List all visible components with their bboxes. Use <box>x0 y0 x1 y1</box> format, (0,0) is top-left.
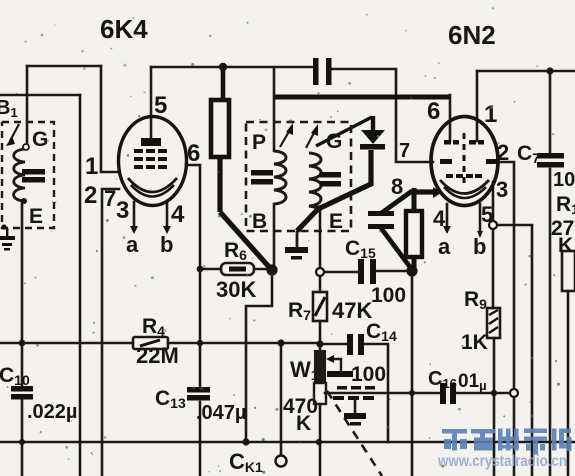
svg-text:5: 5 <box>481 202 493 227</box>
wire R9 bottom <box>493 338 496 476</box>
svg-text:100: 100 <box>351 363 386 386</box>
wire B2 P top vertical <box>273 69 276 151</box>
node R6 left <box>197 266 204 273</box>
transformer B2 dashed box <box>246 122 351 231</box>
node top right <box>546 67 553 74</box>
arrowhead at 6N2 pin8 <box>433 187 442 198</box>
watermark <box>437 429 571 471</box>
svg-text:E: E <box>29 205 43 228</box>
wire 6K4 pin7 <box>102 189 119 476</box>
svg-text:100: 100 <box>371 284 406 307</box>
svg-text:6: 6 <box>427 98 440 125</box>
6K4 cathode arcs <box>128 178 177 192</box>
6K4 heater arrowheads <box>130 226 138 234</box>
tube 6N2 envelope <box>431 117 498 206</box>
svg-text:.022µ: .022µ <box>27 401 77 423</box>
node coil E bottom <box>21 198 27 204</box>
ground below B2 <box>296 231 299 247</box>
coil B2 secondary G <box>309 153 321 208</box>
diode D <box>316 116 385 150</box>
diode D cathode trace to ground <box>297 150 371 231</box>
wire 6K4 pin5 vertical <box>150 67 153 142</box>
svg-text:3: 3 <box>496 177 508 202</box>
node circle pin3/5 <box>489 221 497 229</box>
svg-text:7: 7 <box>399 140 410 162</box>
capacitor C7 <box>537 153 564 159</box>
wire Ck1 tap <box>280 343 283 454</box>
wire R6 left stub <box>200 268 221 271</box>
terminal Ck1 <box>276 456 287 467</box>
node B1 bus <box>19 439 25 445</box>
svg-text:www.crystalradio.cn: www.crystalradio.cn <box>437 453 567 470</box>
W1 mech dashed link <box>327 391 382 476</box>
wire B2 E bottom <box>319 209 322 268</box>
svg-text:a: a <box>126 232 139 257</box>
svg-text:P: P <box>252 131 266 154</box>
svg-text:22M: 22M <box>136 343 179 368</box>
wire B2 B bottom to node <box>273 204 276 268</box>
wire top right B+ <box>477 70 575 73</box>
ground below filter <box>354 399 357 413</box>
resistor R9 <box>487 308 500 338</box>
6N2 internal electrodes <box>440 140 497 178</box>
wire 6N2 pin4 heater <box>446 204 449 226</box>
wire C14 line <box>320 343 347 346</box>
node plate junction 6K4 <box>219 63 227 71</box>
wire coupling cap to 6N2 pin7 <box>331 69 433 162</box>
svg-text:7: 7 <box>104 186 116 211</box>
svg-text:8: 8 <box>391 174 403 199</box>
svg-text:3: 3 <box>116 197 129 224</box>
wire left second horizontal <box>0 94 80 97</box>
svg-text:E: E <box>329 210 343 233</box>
capacitor C15 <box>316 268 324 276</box>
svg-text:a: a <box>438 234 451 259</box>
wire R6 right stub <box>254 268 268 271</box>
resistor R4 <box>133 337 168 349</box>
resistor R7 <box>313 292 327 321</box>
node Ck1 tap <box>277 339 284 346</box>
B1 terminal circle <box>23 144 29 150</box>
pseudo hanzi 4 (yin) <box>524 429 547 455</box>
svg-text:1: 1 <box>85 153 98 180</box>
thick bypass capacitor plates (pin8) <box>368 211 394 216</box>
node 8 blob <box>406 265 417 276</box>
node C16/R9 <box>491 390 497 396</box>
wire C15 left stub <box>324 271 357 274</box>
node C16/blob <box>409 390 415 396</box>
svg-text:K: K <box>296 412 311 435</box>
resistor R10 right edge <box>562 251 575 291</box>
svg-text:4: 4 <box>433 206 446 231</box>
svg-text:2: 2 <box>84 182 97 209</box>
node R4 left <box>19 340 26 347</box>
wire B1 G vertical <box>26 66 29 146</box>
svg-text:6: 6 <box>187 140 200 167</box>
wire 6K4 pin1 grid vertical <box>101 66 119 172</box>
node W1 top <box>316 340 323 347</box>
capacitor C13 <box>187 387 210 393</box>
wire W1 bottom to bus <box>319 404 322 476</box>
svg-text:G: G <box>32 128 48 151</box>
B2 P tuning arrow <box>280 128 291 147</box>
node circle output <box>510 389 518 397</box>
B1 core bars <box>22 169 45 175</box>
svg-text:5: 5 <box>154 92 167 119</box>
6N2 cathode arcs <box>440 180 489 194</box>
coil B2 primary P <box>274 151 286 204</box>
wire right edge R10 leads <box>567 291 570 476</box>
thick trace tube pin8 <box>414 189 434 194</box>
B2 P core bars <box>251 170 273 176</box>
svg-text:100: 100 <box>553 169 575 191</box>
svg-text:.047µ: .047µ <box>196 402 246 424</box>
wire C15 right stub <box>377 270 407 273</box>
wire 6N2 pin3 plate down <box>492 182 495 221</box>
capacitor C10 <box>11 386 33 392</box>
tube 6K4 envelope <box>119 117 187 206</box>
B2 G core bars <box>320 172 341 178</box>
wire detector out to C16 <box>325 392 440 395</box>
pseudo hanzi 1 (kuang) <box>442 429 467 451</box>
wire ground bus bottom <box>0 441 575 444</box>
6N2 center divider <box>463 133 466 184</box>
thick cap diagonals <box>380 191 412 214</box>
ground left edge <box>0 224 15 250</box>
wire 6N2 pin1 vertical <box>476 71 479 141</box>
wire C7 top <box>549 71 552 153</box>
B1 tuning arrow <box>10 124 19 141</box>
wire node8 down to bus <box>411 274 414 476</box>
pseudo hanzi 5 (ji) <box>552 429 572 452</box>
wire step from R6 node down <box>246 274 272 442</box>
svg-text:30K: 30K <box>216 277 256 302</box>
svg-text:G: G <box>326 130 342 153</box>
B2 G tuning arrow <box>306 129 316 148</box>
node screen/C13 <box>197 340 203 346</box>
wire AGC line R4 <box>0 342 133 345</box>
wire W1 top stub <box>319 344 322 350</box>
svg-text:b: b <box>160 232 173 257</box>
wire 6K4 pin2 vertical <box>79 95 82 476</box>
node W1 bus <box>316 439 322 445</box>
wire 6K4 plate top <box>151 66 313 69</box>
thick cathode resistor 6N2 <box>406 211 422 257</box>
capacitor C14 <box>347 334 353 355</box>
potentiometer W1 <box>314 350 326 383</box>
wire 6K4 pin4 heater <box>166 202 169 226</box>
resistor R6 <box>221 263 254 275</box>
wire top-left horizontal grid bus <box>27 65 101 68</box>
wire 6K4 pin3 heater <box>133 202 136 226</box>
svg-text:1: 1 <box>484 101 497 128</box>
6K4 internal electrodes <box>134 138 167 169</box>
svg-text:b: b <box>473 234 486 259</box>
coupling capacitor C12 <box>313 58 319 85</box>
node B2 coil bottom crossing <box>314 205 322 213</box>
6N2 heater arrowheads <box>443 226 451 234</box>
wire R7 top stub <box>319 276 322 292</box>
transformer B1 dashed box <box>2 122 54 228</box>
wire C7 bottom <box>549 169 552 476</box>
thick screen bus to 6N2 grid <box>274 95 449 100</box>
capacitor C16 <box>440 383 446 404</box>
wire 6N2 pin2 <box>498 162 514 476</box>
svg-text:6N2: 6N2 <box>448 20 496 50</box>
detector filter dashes <box>333 386 375 400</box>
thick marker traces <box>211 70 449 268</box>
svg-text:B: B <box>252 210 267 233</box>
pseudo hanzi 2 (shi) <box>471 429 495 451</box>
wire pin3 node to output column <box>497 225 532 476</box>
svg-text:1K: 1K <box>461 331 488 354</box>
wire 6N2 pin5 heater <box>479 204 482 231</box>
svg-text:4: 4 <box>171 201 185 228</box>
wire 6N2 pin6 vertical <box>449 95 452 141</box>
node step-bus <box>242 438 249 445</box>
wire 6K4 pin6 to R6 and C13 <box>186 165 200 269</box>
svg-text:6K4: 6K4 <box>100 14 148 44</box>
svg-text:K: K <box>558 234 573 257</box>
node R6 blob <box>266 264 277 275</box>
wire B1 E down to bus <box>21 201 24 385</box>
thick plate resistor (traced) <box>211 100 229 157</box>
pseudo hanzi 3 (shou) <box>498 429 519 451</box>
wire R7 bottom stub <box>319 321 322 344</box>
coil B1 <box>14 149 25 201</box>
